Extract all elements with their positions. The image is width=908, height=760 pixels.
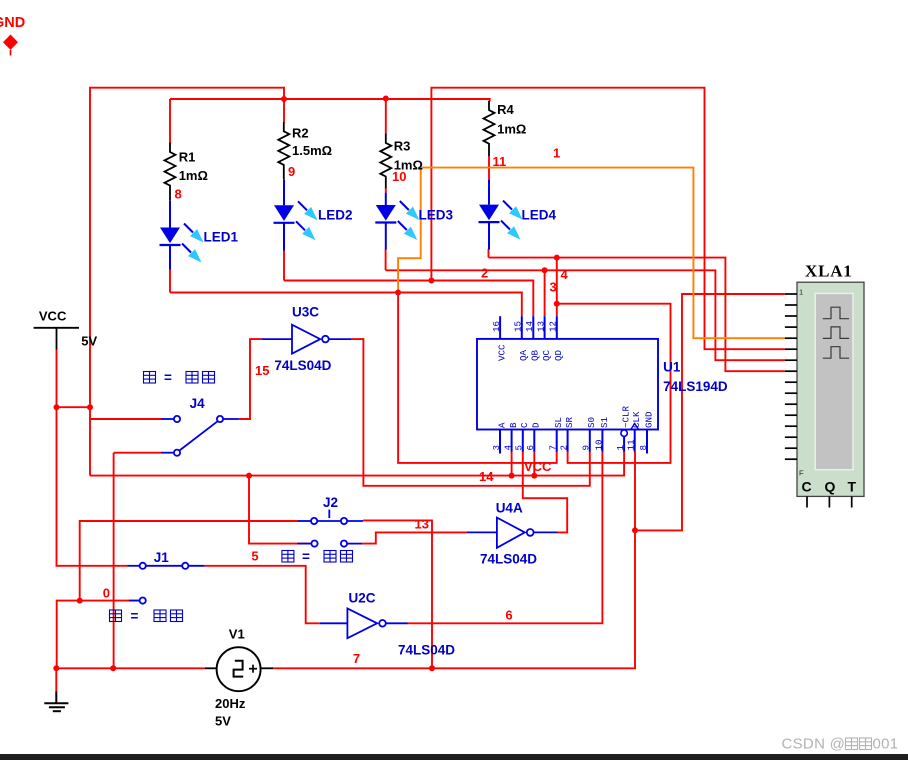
svg-text:4: 4	[503, 445, 514, 451]
resistor R1	[165, 143, 176, 201]
resistor R3	[380, 134, 391, 189]
svg-text:LED2: LED2	[318, 208, 353, 223]
svg-text:C: C	[802, 479, 812, 495]
svg-text:D: D	[531, 422, 542, 428]
svg-text:R3: R3	[394, 139, 411, 154]
label R1	[179, 150, 208, 184]
svg-text:XLA1: XLA1	[805, 262, 853, 281]
svg-text:74LS04D: 74LS04D	[274, 358, 331, 373]
wire net 14 U3C out to S0	[351, 339, 590, 486]
instrument XLA1	[785, 282, 864, 507]
svg-text:1: 1	[553, 146, 560, 161]
svg-text:R2: R2	[292, 126, 309, 141]
svg-text:15: 15	[255, 363, 269, 378]
svg-text:15: 15	[513, 321, 524, 332]
label R2	[292, 126, 332, 159]
U1 pin numbers top	[491, 320, 559, 332]
svg-text:B: B	[508, 422, 519, 428]
switch J4	[161, 416, 239, 456]
svg-text:V1: V1	[229, 627, 245, 642]
GND flag top-left	[0, 15, 25, 56]
svg-text:Q: Q	[825, 479, 836, 495]
wire net 0 ground	[56, 453, 297, 692]
svg-text:1.5mΩ: 1.5mΩ	[292, 143, 332, 158]
svg-text:9: 9	[581, 445, 592, 451]
switch J1	[128, 563, 205, 604]
svg-text:1mΩ: 1mΩ	[497, 122, 526, 137]
label VCC symbol	[39, 309, 98, 349]
wire net 6	[408, 452, 603, 623]
svg-text:GND: GND	[643, 411, 654, 428]
svg-text:S1: S1	[599, 416, 610, 428]
wire net 1 orange	[398, 168, 785, 339]
LED4	[479, 180, 523, 250]
svg-text:3: 3	[491, 445, 502, 451]
svg-text:74LS194D: 74LS194D	[663, 379, 728, 394]
svg-text:6: 6	[505, 608, 512, 623]
svg-text:7: 7	[353, 651, 360, 666]
svg-text:LED1: LED1	[204, 230, 239, 245]
wire net 13	[362, 532, 466, 543]
svg-text:5V: 5V	[215, 713, 231, 728]
svg-text:VCC: VCC	[39, 309, 67, 324]
resistor R2	[278, 122, 289, 179]
wire net 1 QA red part	[170, 269, 557, 463]
key = space label J2	[282, 551, 353, 563]
svg-text:1mΩ: 1mΩ	[179, 168, 208, 183]
svg-text:6: 6	[525, 445, 536, 451]
svg-text:1: 1	[615, 445, 626, 451]
svg-text:11: 11	[626, 439, 637, 451]
svg-text:QA: QA	[518, 349, 529, 361]
svg-text:10: 10	[392, 169, 406, 184]
wire R3 bottom red bit	[385, 188, 387, 192]
wire net 4 QD	[489, 249, 785, 463]
svg-text:SL: SL	[553, 417, 564, 428]
svg-text:14: 14	[524, 320, 535, 332]
svg-text:=: =	[302, 549, 310, 564]
svg-text:5: 5	[514, 445, 525, 451]
VCC power symbol	[34, 328, 79, 350]
svg-text:20Hz: 20Hz	[215, 696, 246, 711]
U1 pin names bottom	[496, 405, 654, 428]
LED2	[274, 179, 318, 250]
svg-text:11: 11	[493, 154, 507, 169]
LED1	[160, 201, 204, 270]
label R4	[497, 102, 526, 137]
svg-text:J1: J1	[154, 550, 170, 565]
resistor R4	[484, 101, 495, 156]
svg-text:SR: SR	[564, 416, 575, 428]
svg-text:QD: QD	[553, 349, 564, 361]
svg-text:T: T	[848, 479, 857, 495]
LED labels	[204, 208, 557, 245]
svg-text:QC: QC	[541, 349, 552, 361]
wire net QB	[284, 88, 785, 350]
svg-text:~CLR: ~CLR	[621, 405, 632, 428]
svg-text:74LS04D: 74LS04D	[398, 643, 455, 658]
op-amp U3C inverter	[262, 325, 351, 354]
svg-text:U2C: U2C	[349, 591, 376, 606]
wire net VCC rail	[57, 88, 625, 566]
bottom window bar	[0, 754, 908, 760]
key = space label J1	[110, 610, 183, 622]
svg-text:2: 2	[559, 445, 570, 451]
svg-text:C: C	[519, 422, 530, 428]
svg-text:0: 0	[103, 586, 110, 601]
wire net 7 clock	[273, 294, 785, 668]
svg-text:U1: U1	[663, 360, 681, 375]
svg-text:1: 1	[799, 288, 803, 297]
svg-text:LED4: LED4	[522, 208, 557, 223]
svg-text:VCC: VCC	[497, 344, 508, 361]
wire net U4A out to pin C	[523, 452, 567, 533]
op-amp U4A inverter	[467, 518, 558, 548]
svg-text:8: 8	[175, 187, 182, 202]
svg-text:74LS04D: 74LS04D	[480, 552, 537, 567]
svg-text:5V: 5V	[81, 334, 97, 349]
svg-text:U4A: U4A	[496, 501, 523, 516]
svg-text:7: 7	[548, 445, 559, 451]
svg-text:14: 14	[479, 469, 494, 484]
svg-text:=: =	[131, 609, 139, 624]
svg-text:2: 2	[481, 266, 488, 281]
svg-text:CLK: CLK	[631, 411, 642, 428]
svg-text:A: A	[496, 422, 507, 428]
svg-text:3: 3	[550, 280, 557, 295]
svg-text:U3C: U3C	[292, 305, 319, 320]
net number labels	[103, 146, 569, 667]
ground symbol	[44, 692, 68, 712]
svg-text:001: 001	[873, 736, 899, 753]
svg-text:13: 13	[536, 321, 547, 332]
svg-text:J4: J4	[190, 396, 206, 411]
svg-text:10: 10	[593, 439, 604, 450]
svg-text:R1: R1	[179, 150, 196, 165]
svg-text:=: =	[164, 370, 172, 385]
svg-text:GND: GND	[0, 15, 25, 31]
U1 pin numbers bottom	[491, 439, 649, 451]
U1 pin names top	[497, 344, 565, 361]
svg-text:8: 8	[638, 445, 649, 451]
svg-text:J2: J2	[323, 495, 338, 510]
chip U1 74LS194D	[477, 316, 658, 453]
svg-text:R4: R4	[497, 102, 514, 117]
svg-text:F: F	[799, 469, 804, 478]
label V1	[215, 627, 246, 729]
key = space label J4	[144, 372, 215, 384]
source V1	[205, 647, 273, 691]
wire R4 bottom red	[488, 156, 490, 180]
op-amp U2C inverter	[320, 609, 408, 639]
wire net 2 QC	[386, 249, 785, 360]
svg-text:CSDN @: CSDN @	[782, 736, 846, 753]
svg-text:4: 4	[561, 267, 569, 282]
svg-text:13: 13	[415, 517, 429, 532]
LED3	[375, 193, 419, 250]
svg-text:5: 5	[251, 549, 258, 564]
svg-text:QB: QB	[530, 349, 541, 361]
wire net 15	[239, 339, 262, 419]
gate labels	[154, 305, 728, 658]
CSDN watermark	[782, 736, 899, 753]
wire net 5	[205, 566, 320, 624]
svg-text:9: 9	[288, 164, 295, 179]
svg-text:16: 16	[491, 321, 502, 332]
svg-text:VCC: VCC	[524, 459, 552, 474]
switch J2	[297, 510, 363, 547]
label R3	[394, 139, 423, 173]
svg-text:LED3: LED3	[419, 208, 454, 223]
svg-text:12: 12	[548, 321, 559, 332]
svg-text:S0: S0	[586, 417, 597, 428]
